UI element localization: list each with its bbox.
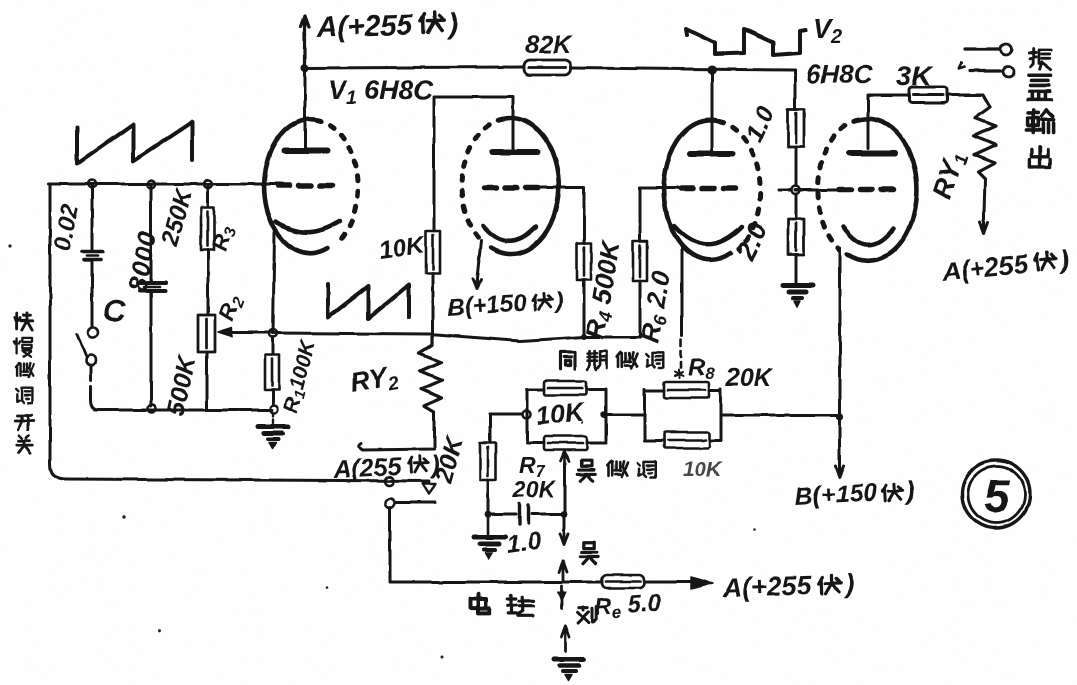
node B+150 junction	[836, 413, 843, 420]
node junction blocks	[600, 411, 607, 418]
wire V1 cathode lead	[273, 233, 275, 333]
text oscillation output vertical	[1029, 49, 1051, 70]
label B(+150V) mid	[447, 287, 565, 322]
wire cap line	[488, 513, 564, 516]
potentiometer block 10K frame	[527, 389, 606, 443]
wire V2a plate lead	[512, 120, 515, 149]
arrow A+255 right	[691, 578, 713, 590]
potentiometer block R8 frame	[645, 389, 721, 441]
potentiometer 500K R2	[198, 315, 215, 352]
tube V1 envelope dashed arc	[316, 120, 358, 244]
tube V1 cathode	[276, 221, 340, 232]
label A(255V) tap	[332, 450, 441, 484]
waveform sawtooth mid	[328, 284, 409, 319]
wire divider mid	[795, 147, 798, 219]
tube V1 grid	[278, 183, 336, 189]
terminal output lower	[970, 69, 1000, 72]
tube V3 grid	[681, 186, 739, 192]
resistor 1.0 divider	[788, 109, 804, 147]
switch blade	[77, 334, 86, 356]
wire top bus	[305, 67, 795, 70]
terminal output upper	[965, 47, 999, 50]
resistor 2.0 divider	[788, 219, 804, 255]
relay coil RY1 zigzag	[974, 107, 996, 179]
relay coil RY2 zigzag	[419, 337, 442, 412]
ground below cap line	[487, 517, 490, 535]
node rail C8000	[148, 405, 156, 413]
ground divider	[783, 283, 813, 288]
wire R3 to R2	[207, 250, 210, 314]
tube V2a cathode	[483, 226, 536, 241]
resistor R6 2.0	[633, 241, 647, 281]
terminal arrow mark	[959, 63, 965, 69]
tube V4 envelope dashed arc	[817, 120, 859, 249]
wire R7 wiper down	[564, 463, 565, 531]
tube V3 envelope solid arc	[664, 120, 731, 260]
junction dot top bus at V3 plate	[708, 66, 717, 75]
text Wu key	[580, 542, 598, 563]
label B(+150V) bottom	[794, 477, 916, 511]
wire key stub right	[395, 501, 435, 504]
label A(+255V) bottom	[721, 568, 855, 603]
waveform V2 pulse shape	[686, 29, 806, 55]
tube V2a plate	[492, 149, 537, 155]
wire to ground divider	[795, 255, 798, 283]
wire block1 to block2	[606, 414, 645, 417]
tube V4 plate	[849, 150, 895, 156]
resistor R4 500K	[577, 243, 591, 280]
speckle dots	[8, 244, 756, 658]
tube V2a envelope solid arc	[491, 118, 559, 254]
wire rail to arrow	[644, 581, 694, 584]
wire key line node circle	[386, 499, 395, 508]
arrow B+150 down	[836, 420, 844, 477]
wire V3 grid lead to R6	[640, 188, 681, 241]
wire 3K to RY1	[947, 95, 990, 107]
node wiper R1	[269, 329, 277, 337]
label A(+255V) top	[315, 8, 458, 44]
label A(+255V) right	[939, 244, 1070, 287]
wire V3 plate lead	[711, 70, 714, 150]
wiper arrow R2	[218, 328, 232, 337]
wire 20K branch corner	[489, 414, 492, 442]
resistor 82K	[524, 60, 571, 75]
switch contact bottom	[86, 356, 96, 366]
resistor block1 bottom	[544, 436, 587, 450]
tube V4 envelope solid arc	[847, 119, 917, 261]
node key line	[385, 477, 394, 486]
wire V2(tube2) plate hook to 10K	[434, 97, 513, 120]
wire V3 cathode lead down	[681, 248, 684, 336]
node R4 junction	[581, 334, 587, 340]
wire R2 to rail	[206, 352, 209, 408]
tube V1 plate	[284, 148, 328, 154]
text telegraph key	[470, 594, 489, 613]
waveform sawtooth input	[77, 122, 192, 164]
capacitor 1.0 plates	[520, 504, 529, 524]
resistor Re 5.0	[602, 575, 644, 588]
wire left rail down and around to key line	[50, 184, 429, 481]
node A(+255V) supply arrow top	[301, 16, 309, 68]
wire entry to 10K block	[490, 413, 522, 416]
arrow end down open	[423, 484, 436, 495]
ground below R1	[272, 413, 274, 423]
wire 20K to ground node	[487, 480, 490, 514]
switch contact top	[88, 328, 98, 338]
text period fine tune	[560, 352, 575, 369]
resistor 20K vertical	[480, 443, 496, 480]
node asterisk at R8 top	[675, 370, 683, 378]
node bus 1	[88, 180, 96, 188]
text Liu key	[578, 607, 597, 623]
wire V4 cathode lead down	[839, 248, 842, 417]
wiper arrow R7 up	[561, 451, 569, 462]
tube V4 cathode	[843, 227, 894, 245]
capacitor 0.02 plates	[82, 252, 103, 260]
arrow key lower segment	[562, 626, 570, 651]
arrow key up above rail	[559, 561, 567, 582]
node divider junction	[792, 186, 800, 194]
arrow key Wu down	[560, 531, 568, 545]
tube V2a envelope dashed arc	[462, 119, 503, 243]
tube V3 envelope dashed arc	[719, 121, 760, 249]
wire V2a cathode arrow B+150	[473, 241, 481, 289]
tube V1 envelope solid arc	[264, 119, 328, 253]
wire V1 plate lead	[304, 68, 307, 149]
resistor block1 top	[544, 381, 586, 395]
resistor 3K	[909, 87, 947, 103]
capacitor C 8000 branch wire	[150, 185, 153, 406]
wire top bus corner down to divider	[794, 70, 797, 109]
capacitor 0.02 branch wire	[91, 184, 94, 327]
tube V3 plate	[690, 151, 733, 157]
arrow key below rail	[561, 586, 564, 608]
node block1 left	[523, 411, 531, 419]
resistor R1 100K	[272, 337, 275, 354]
tube V3 cathode	[674, 226, 742, 244]
tube V2a grid	[484, 185, 539, 191]
wire switch down dashed	[91, 366, 99, 410]
text fast-slow fine tune switch vertical	[14, 313, 32, 330]
resistor 10K anode V2a	[433, 110, 436, 231]
wire bottom rail	[390, 581, 602, 584]
capacitor C 8000 plates	[138, 283, 166, 291]
wire V2a grid lead to R4	[539, 187, 584, 243]
node bus 3	[204, 180, 212, 188]
wire grid bus V1	[48, 183, 280, 186]
wire V4 plate to 3K	[868, 95, 909, 148]
wire wiper bus to right	[273, 333, 640, 341]
ground bottom key	[554, 657, 584, 662]
wire RY2 bottom to A255 tap	[359, 412, 434, 450]
resistor block2 bottom	[664, 432, 709, 448]
wire V4 grid lead	[795, 189, 839, 192]
node cap line left	[485, 511, 492, 518]
wire block2 output to B+150 node	[721, 414, 840, 417]
wire RY1 to A(+255V) arrow down	[980, 179, 988, 233]
resistor 250K R3	[207, 184, 210, 206]
text Wu fine tune	[578, 460, 596, 481]
tube V4 grid	[839, 187, 897, 193]
wire ground rail bottom-left	[95, 409, 272, 412]
node R1 bottom	[270, 405, 278, 413]
wire V3 cathode dashed pointer to R8	[680, 340, 683, 368]
wire key down to bottom rail	[389, 507, 392, 581]
junction dot top bus at V1 plate	[301, 64, 309, 72]
node bus 2	[147, 181, 155, 189]
figure number circle 5	[962, 460, 1030, 528]
resistor block2 top	[664, 382, 709, 398]
node cap line right	[561, 511, 568, 518]
wire divider left stub	[779, 189, 791, 192]
